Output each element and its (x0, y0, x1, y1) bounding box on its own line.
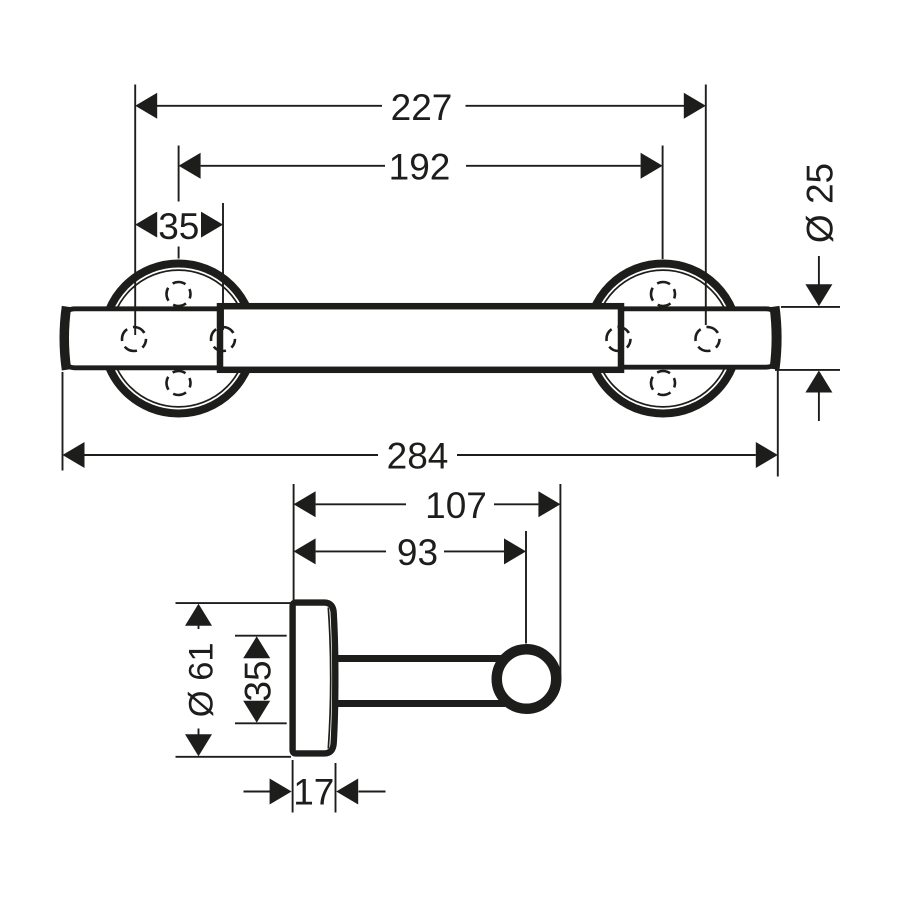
dim 93 arrow left (294, 538, 316, 564)
dim dia25 arrow down (805, 284, 832, 306)
dim dia25 extension line top (781, 306, 840, 308)
left flange screw hole right (211, 327, 235, 351)
dim 17 line right (359, 791, 386, 793)
dim 35b extension line bottom (235, 722, 287, 724)
right flange screw hole left (607, 327, 631, 351)
dim 35b arrow up (243, 636, 270, 658)
svg-text:107: 107 (425, 485, 487, 526)
right flange screw hole right (696, 327, 720, 351)
dim dia25 stem bottom (818, 393, 820, 422)
svg-text:284: 284 (387, 436, 449, 477)
dim 192 arrow left (179, 153, 201, 179)
dim 17 arrow left (270, 779, 292, 805)
left end cap (64, 307, 66, 370)
right end plate (622, 309, 776, 367)
dim 17 extension line right (335, 763, 337, 813)
right flange inner thin circle (595, 270, 732, 407)
wall plate side view (293, 603, 336, 754)
right flange screw hole bottom (651, 371, 675, 395)
dim 192 line (201, 165, 385, 167)
dim 284 arrow left (63, 442, 85, 468)
dim 35b arrow down (243, 701, 270, 723)
dim 107 arrow left (294, 491, 316, 517)
dim 227 line (157, 105, 382, 107)
hook arm top line (336, 655, 505, 662)
dim dia61 extension line bottom (176, 756, 292, 758)
dim 17 extension line left (292, 760, 294, 813)
dim 284 extension line left (62, 372, 64, 471)
dim 107 arrow right (538, 491, 560, 517)
dim dia25 extension line bottom (775, 369, 840, 371)
dim 284 arrow right (756, 442, 778, 468)
dim 35 arrow right (201, 212, 223, 238)
svg-text:35: 35 (238, 660, 279, 701)
svg-text:Ø 25: Ø 25 (800, 163, 841, 243)
left end plate (66, 309, 220, 368)
dim 35 arrow left (135, 212, 157, 238)
right flange outer circle (588, 264, 738, 414)
hook arm bottom line (336, 700, 505, 707)
right end cap (775, 307, 777, 370)
left flange screw hole bottom (167, 371, 191, 395)
svg-text:227: 227 (391, 87, 453, 128)
dim 227 arrow left (135, 93, 157, 119)
left flange inner thin circle (110, 270, 247, 407)
dim 93 extension line right (525, 531, 527, 644)
hook ball end (497, 649, 557, 709)
svg-text:Ø 61: Ø 61 (183, 642, 221, 717)
grip bar (220, 306, 621, 370)
dim 192 arrow right (641, 153, 663, 179)
dim 192 extension line right (662, 146, 664, 260)
left flange outer circle (104, 264, 254, 414)
right flange screw hole top (651, 282, 675, 306)
svg-text:17: 17 (293, 772, 334, 813)
dim 35b extension line top (235, 635, 287, 637)
svg-text:192: 192 (389, 146, 451, 187)
dim dia61 stem top (198, 625, 200, 630)
dim 107 extension line right (559, 484, 561, 678)
dim 284 extension line right (777, 370, 779, 477)
dim 35 extension line right (222, 203, 224, 330)
dim 17 arrow right (336, 779, 358, 805)
dim dia25 stem top (818, 256, 820, 285)
dim 93 arrow right (504, 538, 526, 564)
wall plate inner edge line (328, 608, 330, 749)
dim 284 line (85, 454, 379, 456)
dim 227 extension line left (134, 85, 136, 336)
svg-text:93: 93 (397, 532, 438, 573)
dim 93 line (316, 550, 386, 552)
svg-text:35: 35 (158, 206, 199, 247)
dim 107 line (316, 503, 406, 505)
dim 107 extension line left (293, 484, 295, 600)
dim dia61 extension line top (176, 602, 292, 604)
left flange screw hole top (167, 282, 191, 306)
dim dia61 stem bottom (198, 729, 200, 736)
dim dia25 arrow up (805, 371, 832, 393)
dim dia61 arrow down (185, 734, 212, 756)
dim 227 extension line right (705, 85, 707, 326)
dim 192 extension line left (178, 146, 180, 202)
dim 227 arrow right (684, 93, 706, 119)
dim dia61 arrow up (185, 604, 212, 626)
left flange screw hole left (122, 327, 146, 351)
dim 17 line left (244, 791, 271, 793)
